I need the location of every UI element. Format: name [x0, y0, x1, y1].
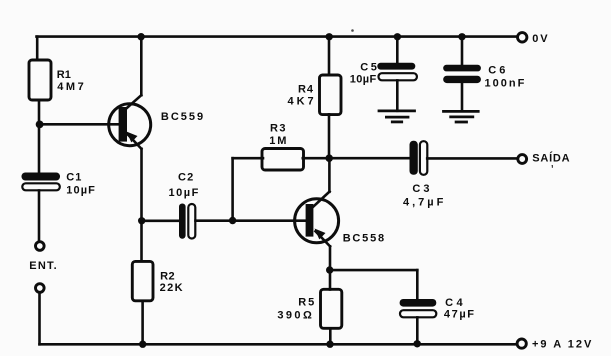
node top rail / C5 [394, 33, 401, 40]
wire R4 bottom to node [328, 114, 331, 158]
svg-text:390Ω: 390Ω [277, 309, 314, 321]
node Q1 emitter / C2 [138, 217, 145, 224]
resistor R3 [262, 149, 304, 171]
capacitor C6 plate 1 (filled) [443, 65, 481, 72]
wire R5 bottom to bottom rail [329, 328, 332, 344]
wire R3 branch horizontal [233, 157, 263, 160]
transistor Q2 BC558 body circle [295, 199, 339, 243]
svg-text:BC558: BC558 [343, 233, 386, 245]
resistor R5 [321, 289, 342, 328]
capacitor C1 plate + (filled) [22, 173, 61, 181]
svg-text:ENT.: ENT. [29, 260, 58, 272]
resistor R1 [29, 60, 51, 100]
wire top rail to C6 [461, 37, 464, 65]
wire Q1 emitter diagonal [128, 134, 142, 149]
node R3/R4/C3 [325, 154, 333, 162]
wire C3 to SAIDA terminal [427, 157, 516, 160]
svg-text:C4: C4 [445, 297, 466, 309]
arrow Q2 emitter (PNP) [315, 229, 326, 240]
transistor Q2 base bar [306, 204, 314, 237]
svg-text:47µF: 47µF [444, 308, 476, 320]
wire Q1 collector diagonal [124, 95, 142, 111]
node C2 wire / R3 branch [229, 217, 236, 224]
wire node to R5 [329, 270, 332, 290]
capacitor C4 plate - (outline) [400, 310, 436, 317]
node bottom rail / R5 [326, 341, 333, 348]
wire node down to Q2 collector [328, 158, 331, 192]
svg-text:R1: R1 [57, 69, 71, 81]
wire Q1 collector vertical to top rail [140, 37, 143, 96]
wire Q2 emitter diagonal [316, 231, 331, 246]
capacitor C1 plate - (outline) [22, 183, 60, 190]
wire C4 bottom to bottom rail [416, 317, 419, 344]
resistor R2 [132, 261, 153, 300]
capacitor C3 plate + (filled) [410, 141, 418, 175]
svg-text:R3: R3 [270, 123, 287, 135]
wire bottom +9V rail [40, 343, 517, 346]
terminal ENT upper circle [36, 242, 45, 251]
wire left vertical from top rail to R1 [36, 37, 39, 60]
wire node to C1 [38, 124, 41, 173]
node top rail / C6 [458, 33, 465, 40]
wire C5 to ground [396, 80, 399, 110]
svg-text:10µF: 10µF [350, 74, 377, 86]
wire Q2 collector diagonal [312, 192, 330, 209]
node bottom rail / R2 [139, 341, 146, 348]
wire lower ENT terminal to bottom rail [38, 293, 41, 344]
wire base of BC559 [39, 123, 122, 126]
wire R1 bottom to base node [38, 100, 41, 124]
svg-text:BC559: BC559 [161, 111, 205, 123]
ground below C6 [444, 111, 479, 122]
wire node to C2 [142, 220, 180, 223]
svg-text:10µF: 10µF [169, 187, 200, 199]
wire R2 bottom to bottom rail [141, 302, 144, 345]
wire top rail to C5 [396, 37, 399, 63]
svg-text:C6: C6 [488, 64, 508, 76]
svg-text:4,7µF: 4,7µF [403, 197, 446, 209]
svg-text:C5: C5 [360, 62, 379, 74]
capacitor C2 plate + (filled) [179, 204, 186, 239]
terminal +9 A 12V circle [517, 339, 526, 348]
terminal SAIDA circle [518, 155, 527, 164]
svg-text:R2: R2 [160, 270, 175, 282]
ink speck (scan artifact) [351, 29, 354, 32]
svg-text:0V: 0V [532, 33, 549, 45]
svg-text:4M7: 4M7 [57, 81, 86, 93]
capacitor C3 plate - (outline) [420, 141, 427, 175]
wire C4 branch vertical [416, 270, 419, 299]
node Q2 emitter / R5 / C4 [326, 266, 333, 273]
wire R3 branch vertical [231, 158, 234, 220]
wire C2 to Q2 base [196, 219, 309, 222]
svg-text:,: , [551, 159, 554, 169]
node base junction R1/C1/base [36, 121, 44, 129]
node top rail / Q1 collector [137, 33, 144, 40]
svg-text:1M: 1M [269, 135, 288, 147]
svg-text:10µF: 10µF [66, 185, 96, 197]
wire R3 to C3 through node [303, 157, 410, 160]
svg-text:4K7: 4K7 [288, 96, 317, 108]
svg-text:100nF: 100nF [485, 77, 527, 89]
wire C6 to ground [461, 83, 464, 111]
svg-text:R5: R5 [298, 296, 316, 308]
wire top 0V rail [37, 35, 517, 38]
svg-text:C1: C1 [66, 172, 82, 184]
ground below C5 [379, 111, 415, 122]
capacitor C4 plate + (filled) [400, 299, 437, 307]
capacitor C2 plate - (outline) [188, 204, 195, 239]
terminal 0V circle [518, 33, 527, 42]
wire Q1 emitter vertical down to R2 [140, 149, 143, 261]
resistor R4 [320, 75, 342, 115]
wire C1 to input terminal [38, 191, 41, 241]
capacitor C6 plate 2 (filled) [443, 76, 481, 83]
capacitor C5 plate - (outline) [379, 73, 417, 80]
arrow Q1 emitter (PNP) [127, 132, 138, 143]
transistor Q1 base bar [119, 107, 127, 142]
node bottom rail / C4 [414, 340, 421, 347]
capacitor C5 plate + (filled) [377, 63, 415, 70]
transistor Q1 BC559 body circle [109, 104, 151, 146]
wire Q2 emitter vertical [329, 246, 332, 270]
svg-text:22K: 22K [160, 282, 184, 294]
svg-text:R4: R4 [298, 84, 314, 96]
svg-text:C3: C3 [412, 183, 432, 195]
terminal ENT lower circle [36, 284, 45, 293]
node top rail / R4 [326, 33, 333, 40]
wire node to C4 branch horizontal [330, 269, 418, 272]
wire top rail to R4 [328, 37, 331, 75]
svg-text:C2: C2 [178, 172, 194, 184]
svg-text:+9 A 12V: +9 A 12V [532, 339, 593, 351]
